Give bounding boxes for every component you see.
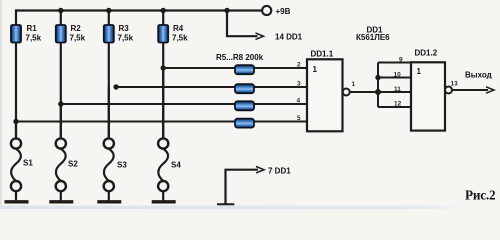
svg-text:R2: R2 (71, 24, 82, 33)
svg-text:R3: R3 (119, 24, 130, 33)
node junction bus/R3 (106, 8, 111, 13)
wire input line pin4 (61, 103, 307, 105)
node junction bus/pin10 (375, 75, 380, 80)
switch S3 (104, 87, 128, 201)
resistor R3 (104, 24, 134, 42)
inverter bubble DD1.1 output (343, 89, 350, 96)
svg-text:3: 3 (297, 81, 301, 88)
resistor R5 (235, 65, 254, 74)
wire DD1.2 input bus (377, 63, 379, 108)
svg-text:S4: S4 (171, 161, 181, 170)
wire input line pin3 (116, 86, 307, 88)
wire R2 column bottom to S2 (60, 43, 62, 139)
node junction R1/pin5 line (13, 119, 18, 124)
svg-text:К561ЛЕ6: К561ЛЕ6 (356, 33, 390, 42)
node junction bus/R2 (58, 8, 63, 13)
inverter bubble DD1.2 output (445, 87, 452, 94)
wire pin11 stub (378, 91, 411, 93)
wire pin9 stub (378, 62, 411, 64)
resistor R6 (235, 84, 254, 93)
wire R1 column bottom to S1 (15, 43, 17, 139)
arrow to pin 14 (256, 33, 264, 39)
svg-text:R1: R1 (27, 24, 38, 33)
resistor R8 (235, 119, 254, 128)
ground S2 (49, 200, 73, 203)
wire 7 DD1 branch (226, 170, 259, 204)
node junction bus/pin11 (375, 89, 381, 95)
wire to 14 DD1 (227, 11, 258, 37)
switch S1 (11, 122, 33, 201)
wire input line pin2 (163, 67, 307, 69)
svg-text:9: 9 (399, 57, 403, 64)
wire output (452, 89, 488, 91)
svg-text:Выход: Выход (465, 70, 492, 79)
resistor R1 (11, 24, 42, 42)
op element DD1.2 box (411, 62, 445, 130)
svg-text:4: 4 (297, 98, 301, 105)
wire R1 column top (15, 9, 17, 25)
scan edge band bottom (0, 0, 1, 1)
switch S4 (158, 68, 181, 201)
svg-text:S3: S3 (117, 161, 127, 170)
node junction R4/pin2 line (161, 65, 166, 70)
svg-text:S2: S2 (68, 160, 78, 169)
wire +9V top bus (16, 9, 262, 11)
op element DD1.1 box (307, 59, 343, 131)
svg-text:Рис.2: Рис.2 (465, 188, 496, 203)
svg-text:R4: R4 (173, 24, 184, 33)
wire R3 column bottom to S3 (108, 43, 110, 139)
power terminal circle +9V (262, 6, 271, 15)
svg-text:2: 2 (297, 62, 301, 69)
resistor R7 (235, 101, 254, 110)
svg-text:S1: S1 (23, 159, 33, 168)
svg-text:10: 10 (394, 72, 402, 79)
ground 7 DD1 (217, 203, 234, 205)
svg-text:7,5k: 7,5k (26, 34, 42, 43)
wire R3 column top (108, 11, 110, 26)
svg-text:DD1.1: DD1.1 (311, 50, 334, 59)
svg-text:12: 12 (394, 101, 402, 108)
svg-text:DD1.2: DD1.2 (415, 49, 438, 58)
wire R4 column bottom to S4 (162, 43, 164, 139)
node junction bus/R4 (161, 8, 166, 13)
svg-text:1: 1 (313, 65, 318, 74)
svg-text:5: 5 (297, 115, 301, 122)
switch S2 (56, 104, 79, 201)
svg-text:7 DD1: 7 DD1 (268, 167, 291, 176)
wire pin12 stub (378, 106, 411, 108)
svg-text:13: 13 (451, 81, 459, 88)
node junction bus/pin14 branch (224, 8, 229, 13)
svg-text:14 DD1: 14 DD1 (275, 33, 303, 42)
arrow to pin 7 (256, 167, 264, 173)
scan edge streak left (0, 0, 2, 206)
wire R4 column top (162, 11, 164, 26)
wire DD1.1 output to DD1.2 input bus (350, 91, 378, 93)
svg-text:1: 1 (352, 81, 356, 88)
svg-text:7,5k: 7,5k (118, 34, 134, 43)
ground S3 (97, 200, 121, 203)
arrow output (486, 87, 494, 93)
svg-text:R5...R8 200k: R5...R8 200k (216, 53, 264, 62)
svg-text:+9В: +9В (276, 7, 291, 16)
svg-text:11: 11 (394, 86, 401, 93)
wire R2 column top (60, 11, 62, 26)
svg-text:7,5k: 7,5k (70, 34, 86, 43)
ground S4 (152, 200, 176, 203)
node junction R2/pin4 line (58, 101, 63, 106)
resistor R2 (56, 24, 86, 42)
node junction R3/pin3 line (113, 84, 118, 89)
ground S1 (5, 200, 29, 203)
wire pin10 stub (378, 77, 411, 79)
svg-text:7,5k: 7,5k (172, 34, 188, 43)
resistor R4 (158, 24, 188, 42)
svg-text:1: 1 (417, 67, 422, 76)
wire input line pin5 (16, 121, 307, 123)
